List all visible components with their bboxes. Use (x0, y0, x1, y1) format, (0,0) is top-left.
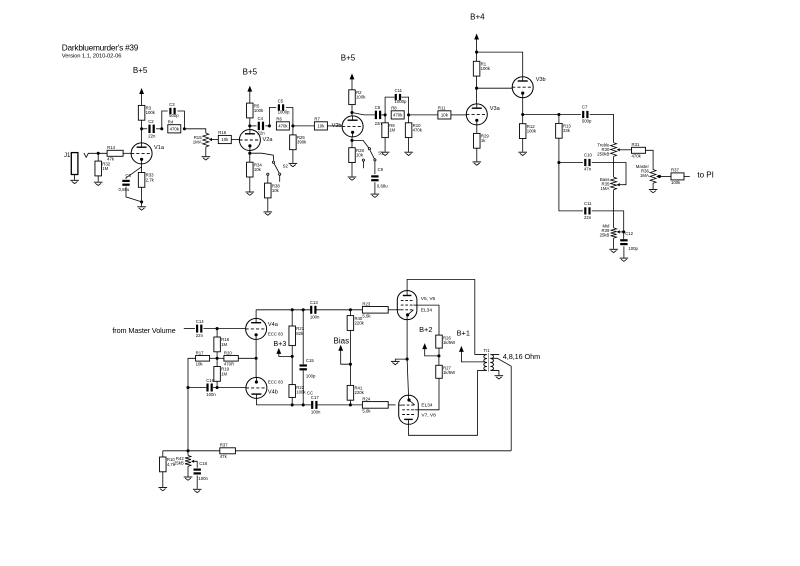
svg-text:100p: 100p (306, 373, 316, 378)
svg-text:100n: 100n (310, 314, 320, 319)
resistor R33 (138, 173, 154, 188)
resistor R38 (265, 183, 281, 198)
node V3a plate / V3b grid (475, 87, 478, 90)
capacitor C2 (148, 119, 156, 138)
wire lower plate to transformer (409, 370, 478, 435)
wire C16 to V4b grid (213, 387, 246, 389)
wire B+5 to R5 (249, 91, 251, 103)
svg-text:V3a: V3a (490, 106, 501, 112)
wire secondary tap to feedback (490, 358, 511, 451)
wire feedback line (235, 450, 511, 452)
ground R42 (184, 477, 193, 480)
svg-text:100n: 100n (206, 392, 216, 397)
capacitor C15 (300, 358, 317, 378)
wire C4 to node (265, 125, 269, 127)
resistor R5 (247, 103, 264, 118)
triode V1a (131, 143, 152, 164)
wire R14 to V1a grid (123, 152, 131, 154)
wire cathode to switch S2 (250, 153, 274, 161)
node C15 bottom (302, 403, 305, 406)
resistor R41 (347, 385, 364, 400)
svg-text:1M: 1M (221, 371, 227, 376)
resistor R29 (474, 133, 490, 148)
wire V4a plate up (255, 310, 257, 319)
svg-text:220k: 220k (354, 320, 364, 325)
svg-text:10k: 10k (196, 361, 204, 366)
svg-text:10k: 10k (272, 188, 280, 193)
wire V4a plate line (256, 309, 310, 311)
node bias (349, 363, 352, 366)
resistor R27 (436, 365, 456, 378)
resistor R26 (436, 335, 456, 348)
supply arrow Bias (338, 345, 343, 351)
node V4a grid (216, 327, 219, 330)
ground mid pot (609, 249, 618, 252)
wire node to R11 (409, 114, 438, 116)
wire to volume pot R15 (184, 129, 205, 133)
resistor R1 (473, 61, 490, 76)
wire master pot to ground (652, 183, 654, 189)
wiper R42 (191, 460, 194, 463)
wire R17 to node (210, 357, 224, 359)
wire R2 to V2b plate (351, 105, 353, 117)
wire C14 to V4a grid (204, 328, 246, 330)
svg-text:1000p: 1000p (395, 99, 408, 104)
wire bias arrow to node (341, 350, 351, 364)
triode V2b (342, 116, 363, 137)
resistor R32 (95, 161, 111, 176)
wire B+4 to V3b plate (477, 52, 523, 77)
svg-text:R16: R16 (218, 130, 226, 135)
potentiometer R42 Presence (174, 455, 191, 466)
svg-text:500p: 500p (169, 113, 179, 118)
wire C9 to ground (374, 182, 376, 193)
svg-text:10k: 10k (441, 113, 449, 118)
ground R32 (94, 182, 103, 185)
svg-text:10k: 10k (317, 124, 325, 129)
svg-text:V4b: V4b (268, 390, 278, 396)
wire R13 to C10 node (558, 138, 560, 162)
svg-text:C9: C9 (378, 167, 384, 172)
node R6 out (291, 124, 294, 127)
ground master pot (649, 190, 658, 193)
ground C18 (193, 489, 202, 492)
wire plate node to C4 (250, 125, 257, 127)
resistor R40 (347, 316, 364, 331)
node C8/R8 (384, 113, 387, 116)
capacitor C11 (tone) (584, 201, 592, 220)
capacitor C7 (582, 105, 592, 124)
node EL34 cathodes (406, 358, 409, 361)
svg-text:CC: CC (307, 390, 313, 395)
svg-text:1k/5W: 1k/5W (443, 340, 456, 345)
supply arrow B+4 (474, 34, 479, 40)
svg-text:B+5: B+5 (341, 54, 356, 63)
svg-text:1MA: 1MA (640, 173, 649, 178)
svg-text:R11: R11 (438, 105, 446, 110)
svg-text:B+5: B+5 (133, 66, 148, 75)
svg-text:C5: C5 (278, 99, 284, 104)
wire V4a cathode to V4b cathode (255, 339, 257, 377)
wire node to R1 (476, 52, 478, 61)
svg-text:500p: 500p (582, 119, 592, 124)
ground R9 (381, 152, 390, 155)
wire input to R14 (89, 152, 108, 154)
svg-text:B+2: B+2 (419, 325, 432, 334)
svg-text:C13: C13 (310, 300, 318, 305)
svg-text:C7: C7 (582, 105, 588, 110)
wire C17 to lower EL34 grid (318, 404, 363, 406)
svg-text:470k: 470k (170, 126, 180, 131)
node R13 top (557, 113, 560, 116)
wire upper cathode down (406, 320, 408, 360)
wire cathode to C6 (diagonals) (126, 167, 142, 202)
wire R15 to ground (205, 147, 207, 156)
svg-text:R6: R6 (276, 116, 282, 121)
svg-text:100k: 100k (356, 95, 366, 100)
wire R9 to ground (384, 138, 386, 152)
svg-text:R20: R20 (224, 350, 232, 355)
node tail junction (216, 357, 219, 360)
capacitor C10 (584, 153, 592, 172)
svg-text:100k: 100k (671, 180, 681, 185)
capacitor C9 (371, 167, 388, 189)
resistor R19 (214, 367, 230, 382)
capacitor C6 (119, 173, 132, 192)
node V2b cathode (350, 139, 353, 142)
wire wiper to R16 (214, 139, 218, 141)
svg-text:10k: 10k (221, 137, 229, 142)
wiper R36 (656, 175, 659, 178)
capacitor C16 (206, 378, 216, 397)
svg-text:ECC 83: ECC 83 (268, 380, 284, 385)
wire B+2 arrow to node (425, 349, 439, 356)
svg-text:1MA: 1MA (193, 140, 202, 145)
wire cathode node to lower tube cathode (407, 359, 408, 395)
node B+2 (437, 354, 440, 357)
transformer Tr1 core (487, 353, 489, 372)
svg-text:22n: 22n (584, 215, 592, 220)
node R13 bottom / C10 (557, 161, 560, 164)
wire R32 to ground (97, 176, 99, 182)
svg-text:10k: 10k (356, 153, 364, 158)
wire V2a cathode (249, 150, 251, 153)
svg-text:R23: R23 (362, 301, 370, 306)
svg-text:V3b: V3b (536, 77, 546, 83)
svg-text:1000p: 1000p (278, 109, 291, 114)
wire C3 branch (162, 111, 185, 129)
wire S1 to C9 (374, 161, 376, 174)
wiper R15 (209, 138, 215, 141)
svg-text:C14: C14 (196, 319, 204, 324)
resistor R10 (4,7k) (160, 457, 176, 472)
wiper R30 (617, 148, 620, 151)
node B+4 (475, 51, 478, 54)
resistor R17 (196, 350, 210, 366)
svg-text:100n: 100n (311, 410, 321, 415)
node input (97, 152, 100, 155)
svg-text:EL34: EL34 (421, 308, 433, 314)
resistor R6 (276, 116, 289, 130)
wire B+3 arrow to node (279, 353, 292, 356)
supply arrow B+5 stage2 (247, 86, 252, 92)
ground R10f (159, 488, 168, 491)
wire R31 to master pot (646, 150, 654, 169)
wire R33 to ground node (141, 187, 143, 202)
wire cathode to R13 node (523, 114, 559, 116)
svg-text:V2b: V2b (332, 123, 342, 129)
resistor R24 (362, 396, 388, 413)
wire S2 to R38 (267, 175, 269, 183)
resistor R9 (382, 123, 396, 138)
node R4/C3 out (183, 127, 186, 130)
svg-text:B+5: B+5 (243, 68, 258, 77)
wire R3 to plate node (141, 120, 143, 129)
svg-text:C3: C3 (169, 102, 175, 107)
wire node to R9 (384, 115, 386, 123)
wire treble to bass (613, 156, 615, 177)
node V1a cathode ground (140, 200, 143, 203)
capacitor C3 (169, 102, 179, 118)
capacitor C17 (311, 395, 321, 414)
triode V4b (246, 377, 267, 398)
svg-text:47k: 47k (220, 454, 228, 459)
svg-text:C6: C6 (125, 173, 131, 178)
node upper grid / R40 (349, 308, 352, 311)
node R22 bottom (291, 403, 294, 406)
wire feedback tail (long vertical) (188, 358, 196, 451)
wire node to R10 (408, 115, 410, 123)
potentiometer R36 Master (636, 164, 656, 183)
wire node to R18 (216, 329, 218, 337)
node V2b plate (350, 111, 353, 114)
svg-text:C10: C10 (584, 153, 592, 158)
wire 47k to presence node (163, 450, 220, 452)
svg-text:B+4: B+4 (470, 12, 485, 21)
resistor R18 (214, 337, 230, 352)
resistor R22 (289, 385, 306, 398)
resistor R25 (290, 135, 307, 150)
svg-text:Tr1: Tr1 (484, 348, 491, 353)
wire R10 to ground (408, 138, 410, 152)
svg-text:22n: 22n (375, 121, 383, 126)
wire node to C10 (559, 162, 583, 164)
wire B+5 to R2 (351, 79, 353, 90)
wire R22 to plate line (291, 397, 293, 405)
svg-text:22n: 22n (196, 333, 204, 338)
svg-text:470R: 470R (224, 361, 234, 366)
svg-text:C16: C16 (206, 378, 214, 383)
svg-text:5,6k: 5,6k (362, 408, 371, 413)
wire node to R25 (292, 126, 294, 135)
wire R42 leads (187, 451, 189, 477)
wire secondary to ground (498, 370, 500, 375)
ground R25 (289, 163, 298, 166)
wire C13 to upper EL34 grid (317, 309, 363, 311)
wire node to C16 (188, 387, 206, 389)
supply arrow B+1 (459, 346, 464, 352)
node presence (186, 449, 189, 452)
svg-text:B+3: B+3 (273, 339, 286, 348)
wire V1a cathode to R33 (141, 164, 143, 173)
svg-text:R24: R24 (362, 396, 370, 401)
wire R5 to V2a plate (249, 118, 251, 130)
wire R38 to ground (267, 198, 269, 211)
wire R28 to ground (351, 163, 353, 177)
svg-text:100p: 100p (628, 246, 638, 251)
node R21 top (291, 308, 294, 311)
capacitor C13 (310, 300, 320, 319)
resistor R14 (107, 145, 123, 161)
ground J1 (70, 180, 79, 183)
wire node to R32 (97, 153, 99, 161)
svg-text:V2a: V2a (263, 137, 274, 143)
wire to ground stage1 (141, 202, 143, 207)
resistor R20 (224, 350, 238, 366)
potentiometer R39 Mid (600, 223, 617, 238)
svg-text:47n: 47n (584, 167, 592, 172)
svg-text:R7: R7 (314, 116, 320, 121)
svg-text:R8: R8 (391, 105, 397, 110)
wire R1 to V3a plate (476, 76, 478, 104)
wire mid pot to ground (613, 238, 615, 249)
wire C7 to treble pot (590, 115, 614, 143)
wire B+1 to primary center tap (461, 351, 484, 362)
svg-text:J1: J1 (64, 153, 71, 159)
wire R40 to bias node (349, 330, 351, 364)
transformer Tr1 primary winding (475, 355, 487, 371)
node B+3 (291, 355, 294, 358)
wire bass to mid (613, 190, 615, 228)
wiper R39 (617, 230, 620, 233)
svg-text:25kB: 25kB (600, 232, 610, 237)
wire R12 to ground (522, 139, 524, 152)
wire node to R7 (293, 125, 315, 127)
ground V1a cathode (137, 207, 146, 210)
resistor R7 (314, 116, 327, 130)
potentiometer R30 Treble (597, 142, 616, 156)
ground R28 (348, 177, 357, 180)
node cathode join (255, 357, 258, 360)
svg-text:R17: R17 (196, 350, 204, 355)
ground R12 (518, 152, 527, 155)
svg-text:C18: C18 (199, 461, 207, 466)
triode V4a (246, 318, 267, 339)
svg-text:C15: C15 (306, 358, 314, 363)
node V4b grid (216, 386, 219, 389)
resistor R37 (NFB 47k) (220, 443, 236, 459)
wire grid node to R40 (349, 310, 351, 316)
wire V2b plate to C8 (352, 113, 375, 115)
wire node to R19 (216, 358, 218, 366)
svg-text:1M: 1M (221, 342, 227, 347)
svg-text:470k: 470k (393, 113, 403, 118)
switch S1 (362, 148, 376, 169)
resistor R2 (349, 90, 366, 105)
svg-text:R31: R31 (632, 142, 640, 147)
wire node to C12 (623, 232, 625, 239)
node C4/R6 (268, 124, 271, 127)
resistor R34 (247, 162, 263, 177)
node C16 left (186, 386, 189, 389)
ground EL34 cathode (391, 361, 400, 364)
svg-text:S2: S2 (283, 163, 289, 168)
wire R11 to V3a grid (451, 114, 466, 116)
wire C18 to ground (196, 476, 198, 489)
svg-text:Darkbluemurder's #39: Darkbluemurder's #39 (62, 42, 139, 52)
wire C15 bottom lead (302, 371, 304, 405)
svg-text:S1: S1 (378, 150, 384, 155)
svg-text:EL34: EL34 (421, 403, 433, 409)
svg-text:100k: 100k (296, 389, 306, 394)
wire J1 to ground (74, 175, 76, 180)
ground secondary (495, 376, 504, 379)
resistor R11 (438, 105, 451, 119)
transformer Tr1 secondary winding (490, 355, 499, 371)
svg-text:1MA: 1MA (601, 186, 610, 191)
resistor R23 (362, 301, 388, 318)
svg-text:100k: 100k (146, 110, 156, 115)
capacitor C8 (375, 105, 383, 126)
wire V3b cathode down (522, 98, 524, 115)
connector J1 (71, 153, 78, 175)
wire cathode to R34 (249, 153, 251, 162)
wire V4b plate down (255, 398, 257, 405)
resistor R28 (349, 148, 365, 163)
wire R18 to tail node (216, 352, 218, 359)
svg-text:0,68u: 0,68u (119, 187, 130, 192)
svg-text:0,68u: 0,68u (377, 184, 388, 189)
ground R38 (264, 212, 273, 215)
wire R23 to upper EL34 (388, 309, 397, 311)
wire R19 to grid node (216, 381, 218, 387)
potentiometer R15 (193, 133, 209, 147)
node master wiper (658, 175, 661, 178)
svg-text:C11: C11 (395, 88, 403, 93)
triode V3b (512, 77, 533, 98)
svg-text:2,7k: 2,7k (146, 177, 155, 182)
svg-text:V1a: V1a (154, 145, 165, 151)
node V3b cathode (521, 113, 524, 116)
wire to V3b grid (477, 87, 513, 89)
wire node to R12 (522, 115, 524, 124)
wire B+5 to R3 (141, 94, 143, 106)
wire R37 to PI (684, 175, 690, 177)
svg-text:C2: C2 (148, 119, 154, 124)
wire plate node to V1a (141, 129, 143, 143)
svg-text:470k: 470k (413, 128, 423, 133)
node mid wiper / C12 (622, 230, 625, 233)
resistor R4 (168, 119, 181, 133)
pentode V5,V6 (EL34) (397, 291, 417, 320)
input arrow V (84, 153, 89, 158)
node V1a plate (140, 127, 143, 130)
wire cathode to switch S1 (352, 140, 369, 148)
wire cathode to R28 (351, 140, 353, 147)
wire C8 to node (381, 114, 385, 116)
svg-text:C4: C4 (258, 116, 264, 121)
wire C2 to node (156, 128, 162, 130)
wire upper screen to R26 (417, 305, 439, 335)
svg-text:220k: 220k (354, 390, 364, 395)
wire R26 to B+2 node (438, 348, 440, 356)
svg-text:100k: 100k (254, 108, 264, 113)
svg-text:C17: C17 (311, 395, 319, 400)
capacitor C12 (620, 231, 638, 251)
resistor R10 (405, 123, 422, 138)
svg-text:100n: 100n (198, 476, 208, 481)
svg-text:5,6k: 5,6k (362, 313, 371, 318)
